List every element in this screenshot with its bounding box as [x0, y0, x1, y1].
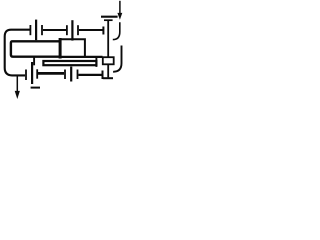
upper right hook wire [113, 22, 120, 39]
output arrow head [15, 91, 20, 99]
coupling M3 center disc [31, 62, 33, 84]
wire bottom shaft middle segment [38, 72, 64, 75]
lower right J hook wire [113, 46, 121, 72]
coupling M4 right half-disc [77, 70, 79, 80]
wire top shaft middle segment [43, 29, 66, 31]
coupling M3 left half-disc [25, 70, 27, 81]
coupling M2 right half-disc [77, 25, 79, 35]
gear R3 on vertical shaft [103, 57, 114, 64]
gear R1 thick left hub bar [59, 38, 62, 59]
input arrow at top right [119, 1, 121, 14]
bearing bar at right end of top shaft [102, 27, 104, 35]
bearing cap wide bar at top of vertical shaft [101, 16, 118, 18]
gear block R2 wide low rectangle [43, 61, 96, 65]
coupling M4 center disc [70, 67, 72, 82]
coupling M1 center disc [35, 20, 37, 41]
coupling M1 right half-disc [41, 25, 43, 35]
gear block R1 on middle axis (tall rectangle) [60, 39, 85, 57]
wire top shaft right segment [79, 29, 103, 31]
wire inner C-loop (top edge, left edge, bottom edge) [11, 41, 60, 56]
wire top shaft left segment with outer frame C-loop [5, 30, 30, 76]
output arrow at bottom left [16, 77, 18, 92]
gear R2 right edge extension to mid line [95, 57, 97, 67]
coupling M2 center disc [71, 20, 73, 40]
bearing hanging bar on inner loop bottom edge [33, 57, 35, 66]
coupling M4 left half-disc [64, 70, 66, 80]
bearing cap narrow bar at top of vertical shaft [104, 19, 113, 21]
wire bottom shaft right segment [78, 74, 102, 76]
wire long mid horizontal line y57 to vertical shaft [60, 56, 103, 58]
vertical shaft lower segment [107, 65, 109, 77]
bearing bar at right end of bottom shaft [102, 71, 104, 80]
frame base line under coupling M3 [31, 87, 40, 89]
vertical shaft upper segment [107, 21, 109, 57]
bearing foot bar at bottom of vertical shaft [103, 77, 113, 79]
coupling M1 left half-disc [29, 25, 31, 35]
input arrow head [117, 13, 122, 20]
coupling M3 right half-disc [36, 69, 38, 78]
coupling M2 left half-disc [66, 25, 68, 35]
